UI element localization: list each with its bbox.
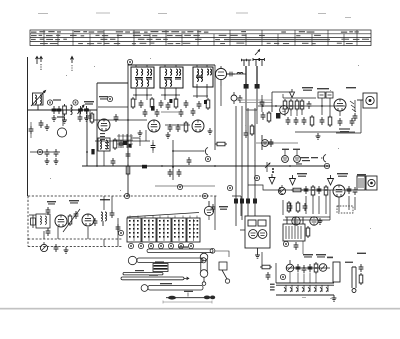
title block text row 3	[31, 39, 369, 41]
wire feeder tie	[246, 109, 257, 111]
wire fm verticals	[44, 196, 118, 247]
capacitor C7	[45, 149, 50, 157]
tube V1 converter	[98, 119, 110, 131]
ground terminal strip	[332, 295, 337, 301]
junction dots audio run	[305, 189, 327, 191]
wire rod1 link right	[215, 251, 229, 257]
wire IF tie rows	[133, 95, 208, 96]
label audio smudge 1	[297, 173, 307, 177]
triangle takeoff A2	[290, 175, 296, 185]
resistor R25	[287, 201, 291, 213]
junction dots IF	[135, 94, 177, 168]
label det smudge 2	[317, 88, 329, 89]
junction dots tone run	[297, 267, 317, 269]
resistor R10	[310, 115, 314, 127]
capacitor C43	[88, 113, 93, 121]
ground IF1	[138, 130, 143, 136]
capacitor C52	[294, 117, 299, 125]
wire PT to tone	[302, 241, 304, 254]
rod1 tuning shaft	[147, 248, 215, 253]
wire FM diagonal	[63, 209, 80, 232]
capacitor C65 left edge	[29, 122, 34, 138]
resistor R15	[324, 185, 328, 197]
wire long AVC bus	[82, 165, 330, 167]
wire converter B+ vertical	[96, 83, 98, 166]
coil L5 fm	[101, 212, 107, 226]
label audio smudge 2	[337, 173, 348, 177]
power transformer PT	[283, 217, 305, 241]
trimmer C3	[78, 105, 85, 114]
wire long vertical v2	[241, 106, 243, 220]
coil L2	[71, 105, 73, 115]
label band switch	[84, 101, 94, 105]
resistor R14	[311, 185, 315, 197]
tube V14 ratio det	[204, 201, 213, 220]
junction dot pair	[272, 168, 274, 173]
capacitor C9	[139, 100, 144, 108]
capacitor C34	[116, 224, 121, 232]
antenna AM rod	[36, 57, 43, 71]
resistor R5	[150, 97, 154, 109]
label under det	[339, 128, 350, 132]
label fm tuner smudge2	[69, 200, 79, 204]
label rod3	[135, 270, 144, 271]
wire audio left vertical	[282, 200, 284, 215]
rectifier boxes	[318, 92, 333, 98]
wire speaker1 return	[336, 100, 361, 133]
node circled j12	[177, 184, 182, 189]
tube V16 small det	[280, 106, 289, 115]
capacitor C21	[307, 101, 312, 109]
title block text row 1	[31, 31, 359, 33]
capacitor C13	[197, 101, 202, 109]
resistor R11	[328, 115, 332, 127]
wire under IF tubes	[93, 120, 190, 125]
label AB	[327, 257, 333, 259]
wire det main bus y106	[258, 105, 345, 107]
capacitor C24	[338, 118, 343, 126]
wire IF tie 2	[161, 111, 183, 113]
node circled j2	[254, 175, 259, 180]
dashed block feedback	[337, 206, 353, 213]
capacitor C63	[177, 169, 182, 177]
capacitor C27	[317, 186, 322, 194]
mixer grid cluster ties	[117, 136, 133, 144]
rod3 link	[123, 273, 163, 275]
node 1 circled	[47, 100, 52, 105]
capacitor C72	[244, 130, 249, 138]
node 2 circled	[73, 100, 78, 105]
capacitor C38	[296, 264, 301, 272]
capacitor C18 blob	[255, 84, 260, 89]
tube V3 IF amp	[148, 120, 160, 132]
capacitor C59	[303, 203, 308, 211]
title block table frame	[30, 30, 371, 46]
feedthrough cap blob 1	[234, 199, 238, 204]
label mixer smudges	[100, 133, 109, 149]
wire audio feed elbow	[248, 185, 280, 190]
FM tuner dashed enclosure	[28, 196, 218, 247]
mixer grid cluster verticals	[119, 134, 131, 148]
resistor R29	[250, 124, 254, 136]
wire twin box side lead	[240, 229, 245, 231]
label jack smudge	[345, 253, 366, 263]
tube V8 small b	[294, 150, 301, 162]
capacitor C4	[84, 106, 89, 114]
wire audio bottom bus	[285, 216, 330, 218]
resistor R26 small	[215, 142, 227, 146]
tube V2 FM detector top	[215, 66, 226, 86]
node circled j7	[37, 149, 42, 154]
node circled j11	[107, 96, 112, 101]
capacitor C25	[350, 118, 355, 126]
wire det bottom bus	[295, 131, 355, 133]
capacitor blob C57	[129, 144, 132, 148]
capacitor blob C56	[123, 141, 127, 145]
node 3 circled	[127, 59, 132, 64]
capacitor C35	[46, 228, 51, 236]
wire tone left vertical	[262, 252, 276, 283]
ground twin tube	[255, 252, 260, 258]
wire tuning bus	[28, 109, 98, 111]
resistor R3	[113, 138, 117, 150]
coil can FM rf	[36, 214, 50, 228]
capacitor C60	[266, 272, 271, 280]
tube V6 detector	[334, 99, 346, 111]
label mid-right smudges	[296, 157, 318, 165]
tube V10 rect a	[292, 217, 300, 225]
resistor R21 jack	[359, 273, 363, 285]
wire feeder continuation	[246, 89, 257, 110]
label fm tuner smudge1	[47, 201, 56, 205]
ground stubs under tuning bus	[52, 115, 57, 121]
switch wafer center lines	[133, 219, 135, 241]
connector jack C-mark 2	[321, 155, 326, 163]
resistor R2	[90, 112, 94, 124]
resistor R18	[306, 226, 310, 238]
capacitor C69	[187, 157, 192, 165]
wire twinbox riser	[232, 196, 241, 216]
IF transformer T3	[193, 67, 213, 87]
band switch shaft link	[127, 213, 199, 218]
ground IF2	[166, 132, 171, 138]
wire tone top run	[286, 267, 330, 269]
chevron contacts	[284, 287, 328, 292]
wire IF right vertical	[214, 65, 216, 150]
wire B+ chain bus	[283, 97, 316, 99]
capacitor C49	[179, 109, 184, 117]
capacitor C47	[143, 109, 148, 117]
resistor R24	[295, 99, 299, 111]
wire det vertical drops	[302, 98, 340, 116]
wire AVC run	[30, 151, 60, 153]
ground det	[316, 133, 321, 139]
ground audio	[318, 218, 323, 224]
wire ratio det chain	[226, 73, 246, 75]
feedthrough cap blob 2	[240, 199, 244, 204]
wire y186 run	[155, 185, 215, 187]
capacitor C48	[155, 109, 160, 117]
wire short run	[95, 140, 150, 142]
output transformer T4	[357, 176, 365, 190]
tube V11 rect b	[310, 217, 318, 225]
potentiometer tuning	[40, 242, 47, 252]
coil L1 antenna transformer	[31, 91, 46, 111]
capacitor C41 jack	[359, 264, 364, 272]
antenna input parts fm	[29, 215, 36, 228]
capacitor C68 stub	[151, 140, 156, 153]
tube V7 small a	[282, 150, 289, 162]
capacitor C31	[74, 211, 79, 219]
wire converter top run	[97, 82, 128, 84]
resistor R8	[184, 121, 188, 133]
capacitor C66	[39, 120, 44, 128]
wire discriminator vertical	[172, 140, 174, 180]
wire audio main run	[280, 189, 357, 191]
tube V13 FM osc	[82, 214, 94, 226]
wire T1 secondary drops	[136, 84, 207, 100]
terminal strip bus	[276, 283, 334, 295]
label osc coil	[99, 96, 108, 100]
switch position numbers	[128, 243, 193, 248]
label tone smudge2	[316, 254, 326, 258]
capacitor C42	[78, 114, 83, 122]
resistor R28	[267, 111, 271, 123]
capacitor C2	[57, 106, 62, 114]
wire osc drop	[103, 151, 105, 166]
label det smudge 1	[302, 87, 313, 91]
resistor R19	[314, 262, 318, 274]
dial drum hatched	[153, 264, 168, 272]
label rod6	[184, 291, 193, 292]
coil L3	[237, 73, 243, 75]
wire long vertical v4	[254, 108, 256, 216]
capacitor C30	[288, 203, 293, 211]
label near v14	[219, 206, 228, 210]
ground left low	[45, 124, 50, 130]
wire IF top B+ bus	[128, 64, 215, 66]
connector jack C-mark	[203, 148, 208, 156]
resistor R9	[300, 99, 304, 111]
node circled j5	[283, 241, 288, 246]
label TP	[270, 284, 275, 291]
capacitor C16	[227, 72, 235, 77]
wire shield corner	[272, 92, 292, 112]
coil L4 circled	[231, 92, 237, 104]
node circled j10	[324, 163, 329, 168]
capacitor C53 mid	[260, 95, 265, 112]
capacitor C14	[168, 124, 173, 132]
wire IF vertical x128	[127, 64, 129, 196]
capacitor C19	[238, 95, 243, 103]
capacitor C62	[168, 169, 173, 177]
ground IF3	[208, 128, 213, 134]
capacitor blob C44	[151, 106, 155, 111]
capacitor C32	[46, 207, 51, 215]
label fm tuner smudge3	[100, 199, 110, 200]
switch wafer S4	[172, 218, 186, 242]
tube V4 IF amp 2	[192, 120, 204, 132]
IF transformer T2	[160, 67, 183, 88]
tube V9 output	[333, 185, 345, 197]
capacitor C10	[159, 100, 164, 108]
capacitor blob C64	[142, 165, 147, 169]
capacitor C8	[54, 149, 59, 157]
capacitor C23	[320, 117, 325, 125]
wire mixer elbow	[131, 130, 146, 146]
capacitor C70	[261, 112, 266, 120]
label tone smudge1	[303, 254, 313, 258]
wire audio verticals	[306, 196, 355, 214]
ground avc2	[54, 158, 59, 164]
node circled j4 on dashed	[202, 193, 207, 198]
capacitor C40	[308, 264, 313, 272]
node circled j3 on dashed	[124, 193, 129, 198]
label small left smudges	[53, 99, 65, 117]
rod6 bottom link	[163, 293, 215, 304]
wire tone drops	[290, 272, 316, 283]
trimmer arrow part	[265, 162, 270, 172]
scan artifact bottom band	[0, 308, 400, 310]
capacitor C29	[353, 187, 358, 195]
capacitor C12	[184, 100, 189, 108]
junction dots elbows	[86, 119, 291, 195]
tube V12 FM rf	[55, 215, 67, 227]
capacitor blob C46	[204, 100, 207, 104]
wire FM feeder thick 2	[256, 66, 258, 84]
detector parts right	[353, 100, 358, 121]
resistor R1	[63, 104, 67, 116]
capacitor C20	[269, 139, 274, 147]
resistor R23	[289, 99, 293, 111]
capacitor C39	[302, 265, 307, 273]
wire long vertical v3	[247, 108, 249, 216]
wire long vertical v1	[235, 106, 237, 226]
oscillator coil box	[98, 138, 110, 151]
IF transformer T1	[131, 67, 154, 88]
ground fm	[64, 247, 69, 253]
rod5 drive shaft	[141, 285, 203, 292]
label rod5	[160, 283, 172, 284]
label speaker2 smudge	[357, 174, 366, 175]
capacitor C67 on x128	[126, 151, 131, 159]
capacitor C37	[294, 242, 299, 250]
label rod1	[178, 246, 188, 247]
speaker SP2	[366, 176, 377, 190]
potentiometer volume	[278, 185, 285, 195]
wire stubs left	[63, 110, 90, 126]
antenna FM dipole small	[242, 59, 252, 66]
feedthrough cap blob 4	[253, 199, 257, 204]
dashes shield	[350, 101, 356, 112]
node circled j9	[205, 156, 210, 161]
capacitor C61	[93, 218, 98, 226]
capacitor C28	[347, 186, 352, 194]
capacitor C36 below box	[54, 244, 59, 252]
wire shield top double	[240, 100, 272, 103]
feedthrough cap blob 3	[246, 199, 250, 204]
wire box corner mid	[98, 106, 128, 108]
wire FM feeder thick 1	[245, 66, 247, 84]
triangle takeoff A3	[328, 175, 334, 185]
rod4 pointer bar	[121, 277, 189, 280]
resistor R13	[291, 188, 303, 192]
scan artifact top dashes	[38, 13, 351, 19]
wire feeder extensions	[221, 86, 257, 130]
potentiometer tone	[286, 260, 294, 272]
capacitor C1	[52, 106, 57, 114]
wire left main vertical bus	[27, 57, 29, 196]
label speaker1 smudge	[346, 87, 356, 88]
rod2 dial cord bar	[128, 256, 206, 264]
antenna aux arrow	[71, 57, 74, 72]
capacitor blob C54	[91, 149, 94, 154]
antenna FM dipole large	[253, 50, 264, 66]
resistor R17	[68, 214, 72, 226]
resistor R27 on x128	[126, 164, 130, 176]
wire x215 lower	[214, 196, 216, 230]
capacitor C6	[119, 140, 124, 148]
output device box	[333, 262, 340, 282]
triangle takeoff A4	[290, 89, 295, 98]
resistor R4	[131, 97, 135, 109]
resistor R20 left	[260, 265, 272, 269]
capacitor C5	[114, 114, 119, 122]
resistor R22	[283, 99, 287, 111]
bracket and idler	[219, 262, 230, 283]
capacitor blob C45	[169, 99, 172, 103]
junction dot mid	[127, 140, 129, 142]
switch wafer S3	[157, 218, 171, 242]
capacitor C17 blob	[244, 84, 249, 89]
switch wafer S2	[142, 218, 156, 242]
speaker SP1	[357, 93, 377, 108]
capacitor C15	[176, 124, 181, 132]
wire takeoff y151	[173, 150, 203, 152]
wire det lower y143	[256, 142, 298, 144]
resistor R16	[296, 201, 300, 213]
scan specks	[50, 58, 371, 299]
ground avc1	[45, 158, 50, 164]
node circled j13	[227, 185, 232, 190]
potentiometer balance	[319, 264, 327, 272]
switch wafer S1	[127, 218, 141, 242]
tube V15 partial	[57, 128, 66, 137]
label rod4	[149, 275, 158, 276]
capacitor C26	[304, 186, 309, 194]
wire IF can top stubs	[136, 65, 207, 67]
node circled j8	[118, 230, 123, 235]
junction dots det bus	[262, 105, 323, 107]
capacitor C51	[286, 117, 291, 125]
title block text row 2	[31, 35, 321, 37]
label drum	[155, 261, 164, 262]
resistor R6	[174, 97, 178, 109]
title block column dividers	[44, 30, 357, 46]
wire rect bus	[283, 190, 330, 220]
resistor R7	[206, 98, 210, 110]
wire screen vertical	[86, 108, 88, 166]
node circled j6	[280, 274, 285, 279]
title block text row 4	[40, 43, 353, 45]
capacitor C33	[110, 210, 115, 218]
switch wafer S5	[187, 218, 200, 242]
capacitor C58 det2	[211, 204, 216, 212]
capacitor C50	[191, 108, 196, 116]
capacitor C55	[111, 158, 116, 166]
wire chain drops	[283, 94, 297, 116]
phone jack J1	[352, 267, 356, 293]
